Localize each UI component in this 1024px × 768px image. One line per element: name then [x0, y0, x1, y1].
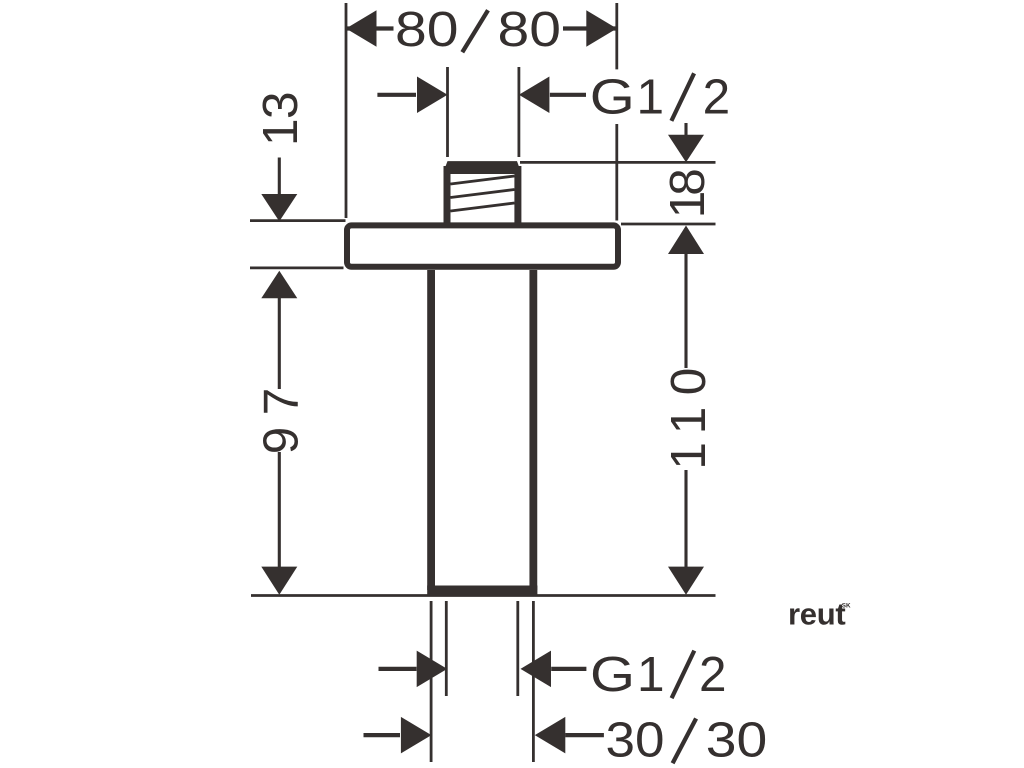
- arrowhead bottom G1/2 left: [417, 651, 448, 688]
- extension line from flange top-right going right (18/110): [621, 223, 716, 226]
- dimension leader top G1/2 right: [550, 93, 586, 97]
- svg-text:G: G: [590, 647, 635, 702]
- svg-text:80: 80: [395, 2, 459, 57]
- slash of top G1/2: [671, 73, 694, 121]
- arrowhead 97 bottom (down, at pipe bottom line): [261, 567, 297, 595]
- ceiling flange plate: [347, 225, 618, 266]
- extension line thread left (top G1/2): [446, 67, 449, 157]
- extension line at pipe bottom (97/110): [251, 594, 716, 597]
- dimension line tail above 18 arrow: [684, 123, 687, 136]
- extension line pipe inner-left downward (bottom G1/2): [445, 601, 448, 696]
- thread hatch line 2: [451, 190, 515, 198]
- arrowhead 30/30 left: [401, 717, 432, 754]
- arrowhead top G1/2 left: [417, 77, 448, 114]
- dimension leader bottom G1/2 left: [379, 667, 417, 671]
- extension line thread right (top G1/2): [518, 67, 521, 157]
- extension line pipe outer-left downward (30/30): [430, 601, 433, 762]
- svg-text:G: G: [590, 70, 635, 125]
- thread hatch line 3: [451, 203, 515, 211]
- svg-text:13: 13: [253, 92, 308, 146]
- arrowhead 80/80 right: [586, 10, 617, 47]
- pipe bottom cap: [427, 586, 537, 597]
- pipe left wall: [427, 270, 435, 590]
- arrowhead bottom G1/2 right: [521, 651, 552, 688]
- arrowhead 110 bottom (down, at pipe bottom line): [668, 567, 704, 595]
- dimension leader bottom G1/2 right: [551, 667, 586, 671]
- svg-text:reut: reut: [788, 597, 845, 632]
- svg-text:97: 97: [254, 376, 309, 454]
- svg-text:1: 1: [637, 70, 665, 125]
- extension line pipe inner-right downward (bottom G1/2): [516, 601, 519, 696]
- dimension leader 30/30 left: [364, 733, 401, 737]
- extension line from flange bottom-left going left (97): [250, 266, 344, 269]
- arrowhead 18 down: [668, 135, 704, 162]
- svg-text:SK: SK: [842, 602, 851, 609]
- extension line from thread top going right (18): [520, 161, 716, 164]
- arrowhead 97 top (up, at flange bottom line): [261, 271, 297, 298]
- svg-text:18: 18: [660, 170, 715, 219]
- arrowhead 13 down: [261, 194, 297, 221]
- pipe right wall: [529, 270, 537, 590]
- dimension line 13 (vertical): [278, 158, 281, 196]
- dimension line 97 (vertical, gap at text): [278, 298, 281, 390]
- arrowhead top G1/2 right: [519, 77, 550, 114]
- svg-text:80: 80: [498, 2, 562, 57]
- arrowhead 80/80 left: [346, 10, 377, 47]
- arrowhead 30/30 right: [535, 717, 566, 754]
- slash of bottom G1/2: [672, 651, 695, 699]
- extension line from flange top-left going left (13): [250, 219, 346, 222]
- dimension leader top G1/2 left: [377, 93, 416, 97]
- dimension line 110 (vertical, gap at text): [684, 254, 687, 369]
- nipple top bar (chamfered): [444, 161, 521, 174]
- dimension leader 30/30 right: [565, 733, 604, 737]
- extension line pipe outer-right downward (30/30): [532, 601, 535, 762]
- dimension line 80/80 (left and right of text): [346, 26, 394, 30]
- threaded nipple body (G1/2 male thread): [447, 166, 518, 223]
- svg-text:30: 30: [706, 712, 768, 767]
- svg-text:110: 110: [661, 356, 716, 469]
- extension line from flange top-left corner upward (80/80 left): [345, 3, 348, 218]
- svg-text:2: 2: [703, 70, 731, 125]
- extension line from flange top-right corner upward (80/80 right, gap at G1/2 text): [615, 3, 618, 69]
- thread hatch line 1: [451, 176, 515, 184]
- svg-text:2: 2: [699, 647, 727, 702]
- arrowhead 110 top (up, at flange top line): [668, 226, 704, 255]
- svg-text:1: 1: [637, 647, 665, 702]
- svg-text:30: 30: [606, 712, 665, 767]
